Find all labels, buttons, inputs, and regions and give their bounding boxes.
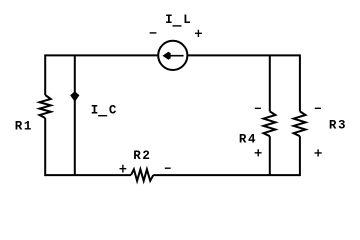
svg-text:R3: R3 (329, 118, 347, 132)
svg-text:I L: I L (165, 13, 192, 27)
svg-text:R4: R4 (239, 132, 257, 146)
svg-text:R1: R1 (15, 120, 33, 134)
svg-text:R2: R2 (133, 149, 151, 163)
svg-text:I C: I C (91, 103, 118, 117)
